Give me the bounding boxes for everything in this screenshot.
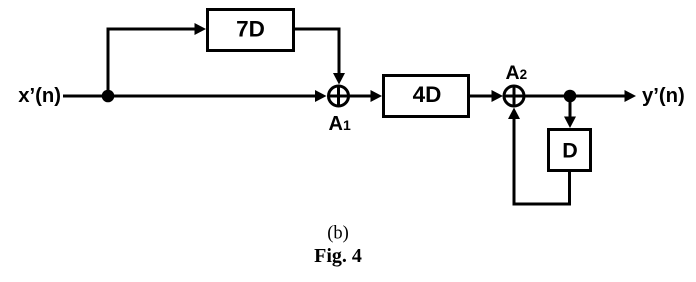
svg-text:x’(n): x’(n) (18, 85, 61, 107)
svg-text:(b): (b) (327, 224, 349, 244)
svg-text:7D: 7D (236, 17, 265, 42)
svg-text:A1: A1 (329, 113, 351, 135)
svg-text:D: D (562, 139, 578, 163)
svg-text:Fig. 4: Fig. 4 (314, 245, 362, 267)
svg-text:4D: 4D (413, 82, 442, 107)
svg-text:y’(n): y’(n) (642, 85, 685, 107)
